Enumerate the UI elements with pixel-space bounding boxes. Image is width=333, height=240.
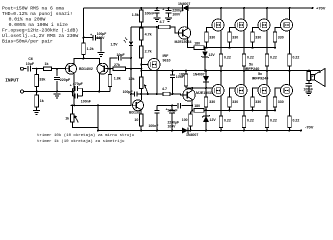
- svg-text:330: 330: [278, 35, 284, 39]
- svg-text:10: 10: [134, 118, 138, 122]
- node C2 top: [56, 68, 58, 70]
- svg-text:100nF: 100nF: [304, 88, 314, 92]
- svg-text:180: 180: [194, 104, 200, 108]
- resistor R5 1.8k shunt: [108, 75, 121, 87]
- wire Q2 base to R6: [106, 68, 113, 70]
- ground C3: [98, 53, 105, 57]
- node M4 rail: [289, 7, 291, 9]
- wire M4 gate lead: [275, 28, 281, 33]
- node M6 rail: [243, 130, 245, 132]
- wire P2 wiper to drive: [147, 93, 149, 95]
- node M7 bus: [252, 109, 254, 111]
- svg-text:0.01% na 200W: 0.01% na 200W: [9, 17, 46, 23]
- wire Z2 to -rail: [205, 122, 207, 131]
- wire block right stub: [82, 88, 84, 96]
- wire C12 to rail: [156, 113, 158, 130]
- resistor R4 1.2k tail: [82, 43, 94, 55]
- resistor R2 33k shunt: [35, 75, 46, 87]
- svg-text:10pF: 10pF: [117, 53, 126, 57]
- label 5x IRFP9240: [252, 72, 269, 80]
- svg-text:330: 330: [209, 100, 215, 104]
- wire M6 source down: [243, 96, 245, 116]
- capacitor C2 220pF: [54, 77, 60, 79]
- svg-text:+: +: [70, 84, 72, 88]
- node M3 out: [266, 70, 268, 72]
- wire rail to R9: [140, 8, 142, 10]
- resistor R10 4.7k: [140, 28, 152, 40]
- capacitor C10 2200uF filter: [166, 11, 172, 13]
- node loop rail: [97, 130, 99, 132]
- node M6 bus: [229, 109, 231, 111]
- svg-text:MJE15035: MJE15035: [196, 91, 213, 95]
- svg-text:10k: 10k: [129, 77, 135, 81]
- svg-text:100V: 100V: [172, 13, 181, 17]
- wire M1 drain to rail: [220, 8, 222, 20]
- svg-text:-70V: -70V: [305, 125, 314, 130]
- wire node X to LED col: [131, 26, 141, 28]
- node M1 out: [220, 70, 222, 72]
- resistor R19 180 bus lower: [194, 104, 204, 112]
- wire gate res M5 to bus: [205, 107, 207, 110]
- capacitor C7 100uF VAS: [134, 92, 136, 97]
- node P1 tap: [71, 104, 73, 106]
- wire line to C13: [171, 106, 173, 111]
- wire to C3: [84, 37, 93, 39]
- wire tail to R4: [83, 55, 85, 59]
- terminal input: [21, 67, 24, 70]
- resistor R20c 330 gate M7: [251, 97, 261, 107]
- wire M7 source down: [266, 96, 268, 116]
- wire M8 gate lead: [275, 88, 281, 97]
- node M7 out: [266, 70, 268, 72]
- bottom note text: [37, 133, 135, 144]
- svg-text:1k: 1k: [45, 62, 49, 66]
- node tail filter: [83, 37, 85, 39]
- wire node B right: [131, 68, 141, 70]
- wire C10 down: [168, 13, 170, 16]
- wire R18 to -rail: [190, 126, 192, 131]
- svg-text:4.7: 4.7: [160, 20, 165, 24]
- diode LED bias: [124, 38, 133, 46]
- svg-text:220pF: 220pF: [60, 78, 71, 82]
- resistor R20d 330 gate M8: [273, 97, 283, 107]
- wire R12 to Q5 base: [170, 27, 179, 33]
- node block left: [72, 91, 74, 93]
- wire M6 to output rail: [243, 71, 245, 86]
- wire ground bus: [24, 91, 73, 93]
- resistor R8 10 VAS emitter: [134, 114, 143, 126]
- node zobel rail: [308, 70, 310, 72]
- svg-text:9610: 9610: [163, 58, 171, 62]
- wire C2 to bus: [56, 81, 58, 92]
- resistor R14b 330 gate M2: [228, 32, 238, 42]
- node M8 rail: [289, 130, 291, 132]
- ground zobel: [305, 92, 312, 96]
- svg-text:330: 330: [255, 100, 261, 104]
- wire to VAS base: [70, 104, 131, 106]
- capacitor C1 10uF input: [28, 66, 30, 72]
- wire U1 drain up: [156, 27, 158, 59]
- node U1 node X wire: [156, 26, 158, 28]
- terminal input ground: [21, 90, 24, 93]
- transistor Q1 PNP diff left: [66, 63, 77, 74]
- svg-text:1.2k: 1.2k: [87, 47, 94, 51]
- svg-text:12V: 12V: [209, 53, 216, 57]
- svg-text:Ul.osetlj.=1,2V RMS za 230W: Ul.osetlj.=1,2V RMS za 230W: [2, 33, 78, 39]
- svg-text:100µF: 100µF: [123, 90, 134, 94]
- mosfet M1 IRFP240 top: [212, 19, 224, 31]
- resistor R11 2.7k: [140, 46, 152, 58]
- wire P2 to VAS collector: [140, 89, 142, 101]
- wire M7 gate res to bus: [252, 107, 254, 110]
- wire M3 source down: [266, 30, 268, 54]
- wire M7 gate lead: [253, 88, 259, 97]
- node C13 rail: [171, 130, 173, 132]
- wire R3 to ground: [36, 107, 38, 110]
- capacitor C4 470uF feedback: [75, 86, 77, 91]
- mosfet M5 IRFP9240 bottom: [212, 85, 224, 97]
- wire M3 gate lead: [253, 28, 259, 33]
- node Q1 collector line: [73, 104, 75, 106]
- svg-text:BD140/2: BD140/2: [79, 67, 93, 71]
- svg-text:1N4007: 1N4007: [186, 133, 198, 137]
- transistor Q5 MJE15034 driver: [178, 27, 190, 39]
- node Q2 collector bus: [98, 91, 100, 93]
- svg-text:4.7k: 4.7k: [145, 32, 152, 36]
- node M5 rail: [220, 130, 222, 132]
- zener Z2 12V lower: [202, 115, 210, 122]
- resistor R15a 0.22 source M1: [219, 54, 231, 66]
- node Z1 rail: [204, 70, 206, 72]
- diode D2 1N4007 drive: [203, 76, 209, 82]
- resistor R7 4.7 drive: [162, 87, 170, 96]
- wire M3 drain to rail: [266, 8, 268, 20]
- node B: [130, 68, 132, 70]
- wire M2 drain to rail: [243, 8, 245, 20]
- node P2 wiper: [147, 93, 149, 95]
- wire R6 to node B: [126, 68, 132, 70]
- wire bias column: [140, 58, 142, 77]
- wire P1 loop: [72, 105, 98, 127]
- node VAS collector drive: [140, 93, 142, 95]
- node Q5 rail: [187, 7, 189, 9]
- wire C4 left: [73, 87, 76, 89]
- capacitor C3 100uF tail: [93, 35, 95, 41]
- wire tap line: [186, 86, 206, 88]
- wire rail to D2: [205, 71, 207, 77]
- resistor R20b 330 gate M6: [228, 97, 238, 107]
- wire block left stub: [72, 88, 74, 96]
- wire M1 source down: [220, 30, 222, 54]
- node R16 rail: [185, 70, 187, 72]
- resistor R3 1k to ground: [35, 95, 44, 107]
- svg-text:1k: 1k: [40, 99, 44, 103]
- resistor R21b 0.22 source M6: [242, 116, 254, 128]
- resistor R1 1k input: [44, 62, 52, 71]
- node Z1 bus: [204, 47, 206, 49]
- wire C7 left: [131, 93, 134, 95]
- wire M4 to output rail: [289, 66, 291, 71]
- node M4 out: [289, 70, 291, 72]
- wire R2 to bus: [36, 87, 38, 92]
- svg-text:10µF: 10µF: [26, 62, 35, 66]
- svg-text:0.005% na 100W i nize: 0.005% na 100W i nize: [9, 22, 68, 28]
- resistor R12 4.7 to driver base: [159, 20, 171, 29]
- wire M3 gate res to bus: [252, 42, 254, 48]
- wire speaker feed: [319, 71, 321, 73]
- wire Q6 emitter down: [191, 99, 193, 110]
- wire M6 to -rail: [243, 128, 245, 131]
- wire input to C1: [24, 68, 27, 70]
- wire +70V rail: [84, 7, 314, 9]
- node Z2 rail: [205, 130, 207, 132]
- svg-text:2.7k: 2.7k: [145, 50, 152, 54]
- diode D1 1N4007 +rail: [183, 5, 189, 11]
- speaker: [311, 69, 325, 87]
- wire col to node B: [130, 58, 132, 69]
- svg-text:0.22: 0.22: [224, 56, 231, 60]
- svg-text:1N4007: 1N4007: [178, 2, 190, 6]
- svg-text:C6: C6: [28, 57, 32, 61]
- wire M1 to output rail: [220, 66, 222, 71]
- ground C9: [154, 18, 161, 22]
- wire C9 down: [156, 13, 158, 16]
- resistor R9 1.5k VAS load: [132, 10, 143, 22]
- zener Z1 12V upper: [201, 51, 209, 58]
- node B col: [140, 68, 142, 70]
- wire rail to C8: [172, 71, 174, 75]
- wire M1 gate lead: [207, 28, 213, 33]
- svg-text:0.22: 0.22: [270, 118, 277, 122]
- resistor R15c 0.22 source M3: [265, 54, 277, 66]
- wire M4 gate res to bus: [274, 42, 276, 48]
- wire Q5 emitter to bus: [188, 37, 194, 47]
- wire Q2 collector down: [98, 73, 100, 91]
- capacitor C6 10pF: [119, 56, 121, 61]
- resistor R21c 0.22 source M7: [265, 116, 277, 128]
- mosfet M8 IRFP9240 bottom: [281, 85, 293, 97]
- svg-text:100nF: 100nF: [81, 99, 92, 103]
- node X: [140, 26, 142, 28]
- node C12 rail: [156, 130, 158, 132]
- wire node X to R12: [141, 26, 158, 28]
- node bus 33k: [36, 68, 38, 70]
- wire bus to R3: [36, 92, 38, 96]
- resistor R14d 330 gate M4: [273, 32, 283, 42]
- spec text block: [2, 6, 78, 45]
- svg-text:0.22: 0.22: [247, 118, 254, 122]
- ground bus: [54, 94, 61, 98]
- svg-text:trimer 10k (10 okretaja) za mi: trimer 10k (10 okretaja) za mirnu struju: [37, 133, 135, 138]
- wire R7 to Q6 base: [170, 94, 184, 95]
- wire M4 drain to rail: [289, 8, 291, 20]
- transistor Q3 BD139 VAS: [133, 100, 144, 111]
- wire Q6 collector up: [191, 88, 193, 91]
- node R8 rail: [140, 130, 142, 132]
- node M2 out: [243, 70, 245, 72]
- svg-text:33k: 33k: [39, 78, 45, 82]
- wire M6 gate res to bus: [229, 107, 231, 110]
- wire loop to -rail: [97, 128, 99, 131]
- wire emitter to R18: [191, 110, 193, 114]
- svg-text:THD=0.12% na punoj snazi!: THD=0.12% na punoj snazi!: [2, 11, 73, 17]
- wire bus to Z1: [204, 48, 206, 52]
- resistor R21d 0.22 source M8: [288, 116, 300, 128]
- wire base to R5: [109, 69, 111, 75]
- node C2 bus: [56, 91, 58, 93]
- resistor R6 27k feedback: [113, 63, 126, 71]
- trimmer P1 1k symmetry: [65, 114, 74, 122]
- wire node to R2: [36, 69, 38, 75]
- wire upper gate bus: [204, 47, 275, 49]
- node M2 rail: [243, 7, 245, 9]
- node M3 bus: [252, 47, 254, 49]
- node M1 rail: [220, 7, 222, 9]
- node -70V end: [300, 130, 302, 132]
- transistor Q6 MJE15035 driver: [183, 89, 195, 101]
- node C13 line: [171, 105, 173, 107]
- node tail: [83, 58, 85, 60]
- node P1 loop top: [97, 104, 99, 106]
- wire LED col upper: [130, 27, 132, 41]
- mosfet M3 IRFP240 top: [258, 19, 270, 31]
- wire rail to R22: [308, 70, 310, 73]
- node M5 gate lead: [205, 87, 207, 89]
- wire bus to Z2: [205, 110, 207, 116]
- trimmer P2 10k bias: [129, 77, 144, 89]
- svg-text:Pout=150W RMS na 6 oma: Pout=150W RMS na 6 oma: [2, 6, 64, 12]
- wire base line to C2: [56, 69, 58, 77]
- node D2 rail: [205, 70, 207, 72]
- svg-text:0.22: 0.22: [293, 56, 300, 60]
- mosfet M7 IRFP9240 bottom: [258, 85, 270, 97]
- resistor R14a 330 gate M1: [205, 32, 215, 42]
- svg-text:IRFP240: IRFP240: [245, 67, 260, 71]
- wire M7 to output rail: [266, 71, 268, 86]
- node rail start: [140, 70, 142, 72]
- svg-text:330: 330: [232, 100, 238, 104]
- wire to U1 gate: [141, 64, 148, 66]
- svg-text:trimer 1k (10 okretaja) za sim: trimer 1k (10 okretaja) za simetriju: [37, 139, 125, 144]
- node C11 emitter: [191, 105, 193, 107]
- node Q6 collector tap: [191, 87, 193, 89]
- svg-text:1.5V: 1.5V: [111, 42, 119, 46]
- node Q2 base: [109, 68, 111, 70]
- svg-text:330: 330: [209, 35, 215, 39]
- svg-text:Bias=50mA/per pair: Bias=50mA/per pair: [2, 38, 53, 44]
- wire C5 right: [78, 95, 83, 97]
- P1 wiper arrow: [74, 115, 78, 123]
- resistor R22 27 zobel: [307, 72, 316, 81]
- resistor R16 180 rail tap: [184, 74, 188, 86]
- node M8 out: [289, 70, 291, 72]
- svg-text:330: 330: [278, 100, 284, 104]
- wire M2 gate res to bus: [229, 42, 231, 48]
- capacitor C8 10nF comp: [170, 75, 175, 77]
- resistor R15b 0.22 source M2: [242, 54, 254, 66]
- wire M8 to -rail: [289, 128, 291, 131]
- wire D2 to gate res M5: [205, 82, 207, 97]
- node gate tap: [140, 64, 142, 66]
- wire emitters common: [74, 59, 99, 65]
- wire C7 right: [137, 93, 142, 95]
- resistor R21a 0.22 source M5: [219, 116, 231, 128]
- wire rail to C10: [168, 8, 170, 10]
- svg-text:INPUT: INPUT: [5, 77, 19, 83]
- svg-text:330: 330: [232, 35, 238, 39]
- wire R22 to C14: [308, 81, 310, 84]
- wire -70V rail: [98, 130, 302, 132]
- svg-text:180: 180: [194, 41, 200, 45]
- label 5x IRFP240: [245, 62, 260, 70]
- wire M2 source down: [243, 30, 245, 54]
- P2 wiper arrow: [144, 84, 148, 92]
- node C8 drive: [172, 93, 174, 95]
- resistor R20a 330 gate M5: [204, 97, 215, 107]
- transistor Q2 PNP diff right: [97, 63, 108, 74]
- wire C13 to rail: [171, 113, 173, 130]
- ground C10: [165, 18, 172, 22]
- wire C5 left: [73, 95, 76, 97]
- wire Q5 collector to rail: [187, 8, 189, 29]
- node M8 bus: [274, 109, 276, 111]
- mosfet U1 IRF9610 bias: [148, 59, 160, 71]
- wire VAS emitter to R8: [140, 110, 142, 114]
- wire M3 to output rail: [266, 66, 268, 71]
- node Z2 bus: [205, 109, 207, 111]
- svg-text:BD139: BD139: [129, 111, 140, 115]
- wire U1 source down: [156, 70, 158, 94]
- node M6 out: [243, 70, 245, 72]
- svg-text:Fr.opseg=12Hz-230kHz (-1dB): Fr.opseg=12Hz-230kHz (-1dB): [2, 28, 78, 34]
- wire line to C12: [156, 106, 158, 111]
- svg-text:1k: 1k: [65, 117, 69, 121]
- node M2 bus: [229, 47, 231, 49]
- svg-text:27k: 27k: [114, 63, 120, 67]
- svg-text:4.7: 4.7: [162, 87, 167, 91]
- wire R9 to R10: [140, 22, 142, 28]
- svg-text:1.5k: 1.5k: [132, 13, 139, 17]
- node Q6 emitter bus: [191, 109, 193, 111]
- svg-text:1N4007: 1N4007: [193, 72, 205, 76]
- wire M5 gate lead: [206, 87, 213, 89]
- wire Z1 to rail: [204, 57, 206, 71]
- wire R4 to +rail: [83, 8, 85, 43]
- wire node B down to VAS base: [130, 69, 132, 106]
- wire M2 gate lead: [230, 28, 236, 33]
- capacitor C11 220uF: [178, 103, 180, 109]
- wire M5 source down: [220, 96, 222, 116]
- resistor R13 180 bus upper: [194, 41, 204, 49]
- wire output rail: [141, 70, 320, 72]
- resistor R18 100 emitter: [182, 114, 193, 126]
- diode D3 1N4007 -rail: [182, 128, 188, 134]
- svg-text:100nF: 100nF: [145, 12, 155, 16]
- wire M8 gate res to bus: [274, 107, 276, 110]
- svg-text:180: 180: [179, 72, 185, 76]
- wire C11 to emitter col: [182, 105, 193, 107]
- wire M2 to output rail: [243, 66, 245, 71]
- wire M7 to -rail: [266, 128, 268, 131]
- ground R3: [33, 111, 40, 115]
- mosfet M4 IRFP240 top: [281, 19, 293, 31]
- capacitor C12 100nF -filter: [155, 111, 160, 113]
- node U1 drive: [156, 93, 158, 95]
- wire LED col lower: [130, 46, 132, 58]
- wire C1 to R1: [32, 68, 44, 70]
- svg-text:0.22: 0.22: [270, 56, 277, 60]
- node rail C10: [168, 7, 170, 9]
